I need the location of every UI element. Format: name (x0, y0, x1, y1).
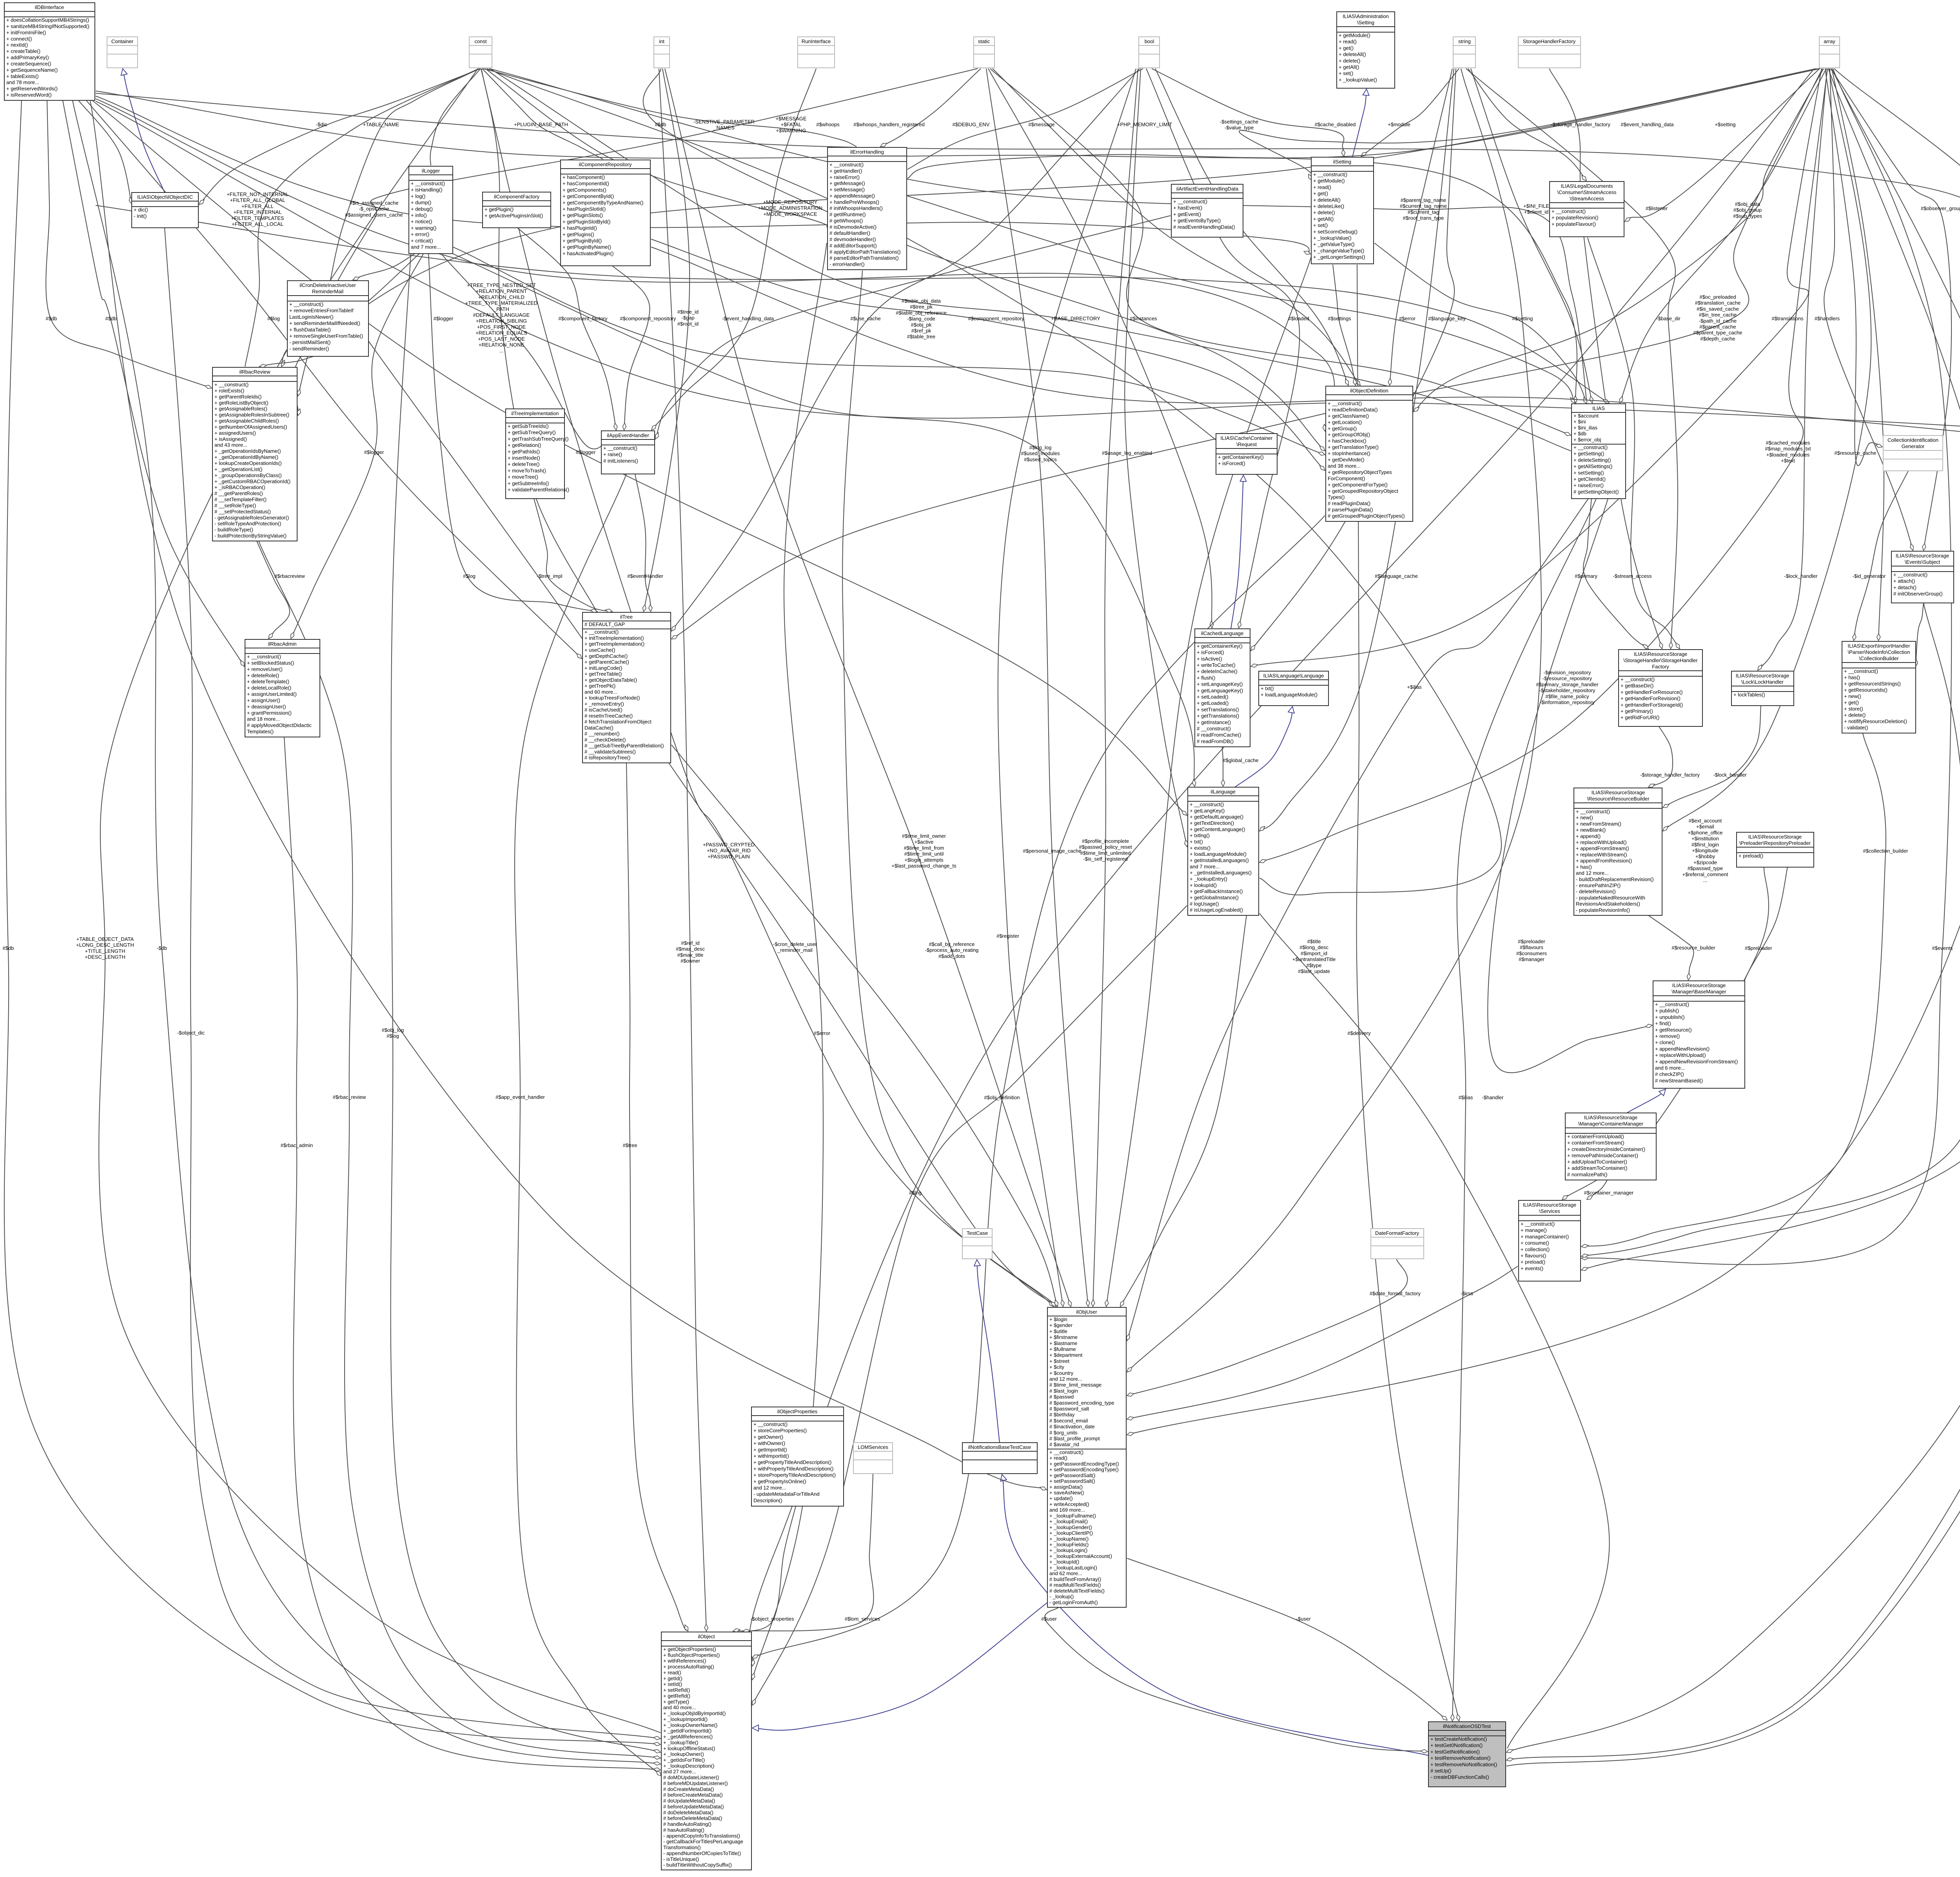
svg-text:#$instances: #$instances (1130, 316, 1157, 321)
svg-text:ForComponent(): ForComponent() (1328, 476, 1365, 481)
svg-text:+$module: +$module (1388, 122, 1410, 127)
svg-text:#$log: #$log (387, 1033, 399, 1039)
svg-text:ILIAS\ResourceStorage: ILIAS\ResourceStorage (1896, 553, 1949, 559)
class ilObjectDIC (132, 192, 198, 228)
svg-text:+ getResourceIds(): + getResourceIds() (1844, 687, 1887, 693)
svg-text:-$storage_handler_factory: -$storage_handler_factory (1551, 122, 1610, 127)
svg-text:# beforeUpdateMetaData(): # beforeUpdateMetaData() (663, 1804, 724, 1810)
svg-text:+ createDirectoryInsideContain: + createDirectoryInsideContainer() (1567, 1146, 1645, 1152)
node label +$ilias (1407, 684, 1422, 690)
svg-text:# isCacheUsed(): # isCacheUsed() (584, 707, 622, 713)
svg-text:+ __construct(): + __construct() (1893, 572, 1927, 578)
node label #$time_limit_owner (891, 833, 956, 869)
svg-text:#$time_limit_unlimited: #$time_limit_unlimited (1080, 850, 1131, 856)
class ilComponentRepository (561, 160, 650, 266)
wire bool-&gt;errh (907, 69, 1143, 169)
wire const-&gt;ilLogger (430, 69, 481, 165)
wire const-&gt;errh-message (483, 69, 857, 147)
svg-text:ILIAS\Administration: ILIAS\Administration (1343, 13, 1389, 19)
svg-text:ilLanguage: ilLanguage (1210, 789, 1236, 795)
svg-text:+ _getInstalledLanguages(): + _getInstalledLanguages() (1190, 870, 1252, 876)
svg-text:+ _isRBACOperation(): + _isRBACOperation() (214, 485, 265, 490)
svg-text:and 43 more...: and 43 more... (214, 442, 247, 448)
node label #$db (105, 316, 117, 321)
node label #$preloader (1745, 945, 1772, 951)
svg-text:+TABLE_NAME: +TABLE_NAME (363, 122, 399, 127)
svg-text:ilTreeImplementation: ilTreeImplementation (512, 410, 559, 416)
wire bool-&gt;ilObjUser-profile (1093, 69, 1138, 1307)
svg-text:+$loaded_modules: +$loaded_modules (1766, 452, 1810, 457)
svg-text:#$ilias: #$ilias (1459, 1095, 1473, 1100)
wire user-&gt;osd-right (1127, 1558, 1447, 1720)
svg-text:#$call_by_reference: #$call_by_reference (929, 941, 975, 947)
svg-text:+ getPasswordEncodingType(): + getPasswordEncodingType() (1049, 1461, 1119, 1467)
svg-text:#$cache_disabled: #$cache_disabled (1315, 122, 1356, 127)
svg-text:+ getReservedWords(): + getReservedWords() (6, 86, 58, 92)
svg-text:#$logger: #$logger (364, 449, 384, 455)
svg-text:ilComponentFactory: ilComponentFactory (494, 194, 540, 200)
class CollectionBuilder (1842, 641, 1916, 733)
svg-text:+ getTreeImplementation(): + getTreeImplementation() (584, 641, 644, 647)
svg-text:#$add_dots: #$add_dots (938, 953, 965, 959)
svg-text:-$revision_repository: -$revision_repository (1544, 670, 1591, 675)
svg-text:ILIAS\ResourceStorage: ILIAS\ResourceStorage (1523, 1202, 1577, 1208)
svg-text:Container: Container (111, 38, 134, 44)
node label #$obj_data (1733, 201, 1762, 219)
svg-text:+ appendNewRevision(): + appendNewRevision() (1655, 1046, 1710, 1052)
svg-text:+ getContainerKey(): + getContainerKey() (1218, 454, 1264, 460)
svg-text:\Lock\LockHandler: \Lock\LockHandler (1741, 679, 1784, 685)
svg-text:#$primary: #$primary (1575, 573, 1597, 579)
svg-text:# handleAutoRating(): # handleAutoRating() (663, 1821, 711, 1827)
svg-text:+ _lookupFields(): + _lookupFields() (1049, 1542, 1089, 1548)
svg-text:- populateNakedResourceWith: - populateNakedResourceWith (1576, 895, 1645, 900)
svg-text:- deleteRevision(): - deleteRevision() (1576, 889, 1616, 895)
node label +TABLE_OBJECT_DATA (76, 936, 134, 960)
svg-text:Generator: Generator (1902, 443, 1925, 449)
node label #$db (3, 945, 14, 951)
node label #$language_key (1428, 316, 1466, 321)
svg-text:#$personal_image_cache: #$personal_image_cache (1023, 848, 1082, 854)
wire bus-db-ILIAS2 (96, 205, 1609, 403)
class ilLogger (409, 166, 453, 254)
wire db-&gt;ilObjUser (90, 100, 1047, 1490)
svg-text:#$error: #$error (814, 1030, 831, 1036)
node label #$setting (1512, 316, 1533, 321)
node label #$rbac_review (333, 1094, 366, 1100)
svg-text:LOMServices: LOMServices (858, 1444, 889, 1450)
svg-text:# $avatar_rid: # $avatar_rid (1049, 1441, 1079, 1447)
svg-text:+ __construct(): + __construct() (584, 629, 619, 635)
svg-text:+ testGetNotification(): + testGetNotification() (1430, 1749, 1480, 1755)
wire array-&gt;cachedlang-translations (1251, 69, 1822, 666)
svg-text:#$component_repository: #$component_repository (968, 316, 1024, 321)
node label #$listener (1646, 205, 1668, 211)
svg-text:#$events: #$events (1932, 945, 1953, 951)
svg-text:#$event_handling_data: #$event_handling_data (1621, 122, 1674, 127)
svg-text:- buildRoleType(): - buildRoleType() (214, 527, 253, 533)
svg-text:#$type: #$type (1306, 962, 1321, 968)
wire ILIAS-&gt;RSSHF-primary (1583, 499, 1648, 649)
wire rbacreview-&gt;ilObject (259, 541, 661, 1758)
wire const-&gt;comprepo-pluginpath (482, 69, 603, 159)
node label #$parent_tag_name (1400, 197, 1447, 221)
svg-text:+ getObjectDataTable(): + getObjectDataTable() (584, 677, 637, 683)
svg-text:+ _lookupOwner(): + _lookupOwner() (663, 1751, 704, 1757)
class ContainerManager (1565, 1113, 1656, 1180)
svg-text:+$email: +$email (1696, 824, 1714, 830)
svg-text:# normalizePath(): # normalizePath() (1567, 1171, 1608, 1177)
svg-text:-$stakeholder_repository: -$stakeholder_repository (1539, 688, 1595, 693)
class ilTreeImplementation (506, 409, 569, 499)
node label #$obj_log (382, 1027, 404, 1039)
wire ILIAS-&gt;ilObjUser-ilias (1127, 499, 1588, 1341)
svg-text:+ getTranslations(): + getTranslations() (1197, 713, 1239, 719)
svg-text:+ _lookupEmail(): + _lookupEmail() (1049, 1519, 1088, 1525)
svg-text:+ has(): + has() (1844, 675, 1860, 681)
wire logger-&gt;ilObject-log (391, 254, 661, 1752)
svg-text:# __setProtectedStatus(): # __setProtectedStatus() (214, 508, 271, 514)
svg-text:#$owner: #$owner (681, 958, 701, 964)
class ilTree (583, 612, 671, 763)
node label #$user (1041, 1616, 1057, 1622)
svg-text:+$FATAL: +$FATAL (781, 122, 802, 127)
svg-text:+ getPlugins(): + getPlugins() (563, 231, 594, 237)
svg-text:- updateMetadataForTitleAnd: - updateMetadataForTitleAnd (753, 1491, 820, 1497)
wire string-&gt;cachedlang-langkey (1251, 69, 1456, 651)
svg-text:#$usage_log_enabled: #$usage_log_enabled (1102, 450, 1152, 456)
svg-text:+ __construct(): + __construct() (1173, 199, 1207, 205)
wire array-&gt;lockhandler (1758, 69, 1827, 670)
svg-text:+ getClientId(): + getClientId() (1573, 476, 1606, 482)
svg-text:+ __construct(): + __construct() (214, 382, 249, 388)
svg-text:+ setBlockedStatus(): + setBlockedStatus() (247, 660, 294, 666)
svg-text:+ getClassName(): + getClassName() (1328, 413, 1369, 419)
wire db-&gt;ilObject-413 (73, 100, 661, 1764)
svg-text:+ publish(): + publish() (1655, 1008, 1679, 1014)
node label #$settings (1328, 316, 1351, 321)
wire db-&gt;ilSetting-bus (96, 96, 1310, 254)
wire lom-&gt;ilObject (743, 1474, 874, 1631)
svg-text:+ deleteTemplate(): + deleteTemplate() (247, 679, 289, 684)
svg-text:# devmodeHandler(): # devmodeHandler() (829, 236, 876, 242)
class RunInterface (798, 37, 835, 68)
svg-text:+ getGroupedRepositoryObject: + getGroupedRepositoryObject (1328, 488, 1398, 494)
svg-text:ilRbacAdmin: ilRbacAdmin (268, 641, 297, 647)
svg-text:+ _getIdForImportId(): + _getIdForImportId() (663, 1728, 711, 1734)
svg-text:- buildDraftReplacementRevisio: - buildDraftReplacementRevision() (1576, 876, 1654, 882)
node label +TABLE_NAME (363, 122, 399, 127)
svg-text:+ set(): + set() (1313, 222, 1328, 228)
svg-text:ilComponentRepository: ilComponentRepository (579, 162, 632, 167)
wire int-&gt;ilObject (659, 69, 706, 1631)
svg-text:+ manageContainer(): + manageContainer() (1521, 1234, 1569, 1240)
svg-text:#$is_saved_cache: #$is_saved_cache (1697, 306, 1739, 312)
svg-text:+ __construct(): + __construct() (753, 1421, 788, 1427)
svg-text:#$db: #$db (655, 122, 666, 127)
wire db-&gt;ilTree (86, 100, 582, 659)
class LockHandler (1731, 671, 1794, 706)
svg-text:+ __construct(): + __construct() (1621, 677, 1655, 683)
node label -$stream_access (1613, 573, 1652, 579)
svg-text:#$loaded: #$loaded (1288, 316, 1309, 321)
svg-text:+ lookupOfflineStatus(): + lookupOfflineStatus() (663, 1745, 715, 1751)
node label #$message (1028, 122, 1054, 127)
svg-text:# $last_login: # $last_login (1049, 1388, 1078, 1394)
svg-text:+ moveTree(): + moveTree() (508, 474, 538, 480)
node label #$error (814, 1030, 831, 1036)
svg-text:+ getTreeTable(): + getTreeTable() (584, 671, 622, 677)
svg-text:#$db: #$db (3, 945, 14, 951)
wire bool-&gt;ilTree-usecache (671, 69, 1140, 631)
svg-text:\Resource\ResourceBuilder: \Resource\ResourceBuilder (1587, 796, 1650, 802)
svg-text:+ getGroupOfObj(): + getGroupOfObj() (1328, 432, 1370, 437)
svg-text:- getLoginFromAuth(): - getLoginFromAuth() (1049, 1599, 1098, 1605)
svg-text:+ _lookupObjIdByImportId(): + _lookupObjIdByImportId() (663, 1710, 726, 1716)
svg-text:#$table_obj_reference: #$table_obj_reference (896, 310, 946, 316)
svg-text:# getIlRuntime(): # getIlRuntime() (829, 212, 866, 218)
wire objprops-&gt;ilObject (733, 1506, 796, 1631)
svg-text:and 78 more...: and 78 more... (6, 80, 39, 85)
svg-text:+ __construct(): + __construct() (247, 654, 281, 660)
svg-text:+ isActive(): + isActive() (1197, 656, 1222, 662)
svg-text:+ _lookupName(): + _lookupName() (1049, 1536, 1089, 1542)
svg-text:+ getComponents(): + getComponents() (563, 187, 606, 193)
svg-text:#$container_manager: #$container_manager (1584, 1190, 1634, 1196)
class int (654, 37, 670, 68)
svg-text:+ getRelation(): + getRelation() (508, 442, 541, 448)
svg-text:+ getNumberOfAssignedUsers(): + getNumberOfAssignedUsers() (214, 424, 287, 430)
node label -$base_dir (1656, 316, 1681, 321)
svg-text:+ removeUser(): + removeUser() (247, 666, 283, 672)
svg-text:+ _getOperationIdByName(): + _getOperationIdByName() (214, 454, 278, 460)
node label #$personal_image_cache (1023, 848, 1082, 854)
svg-text:# $passwd: # $passwd (1049, 1394, 1074, 1400)
svg-text:# __renumber(): # __renumber() (584, 731, 620, 737)
svg-text:+ __construct(): + __construct() (1844, 668, 1878, 674)
wire ILIAS-&gt;basemanager-handler (1488, 499, 1652, 1073)
svg-text:+ deleteSetting(): + deleteSetting() (1573, 457, 1611, 463)
svg-text:+ isReservedWord(): + isReservedWord() (6, 92, 52, 98)
svg-text:+ $lastname: + $lastname (1049, 1340, 1077, 1346)
wire dff-&gt;ilObjUser (1127, 1259, 1408, 1396)
svg-text:+ _lookupImportId(): + _lookupImportId() (663, 1716, 708, 1722)
svg-text:+ _lookupGender(): + _lookupGender() (1049, 1524, 1092, 1530)
svg-text:+ __construct(): + __construct() (289, 301, 323, 307)
svg-text:+ getPluginSlots(): + getPluginSlots() (563, 212, 603, 218)
wire inherit ContainerManager-&gt;BaseManager (1627, 1089, 1666, 1113)
svg-text:-$id_generator: -$id_generator (1853, 573, 1886, 579)
svg-text:# beforeMDUpdateListener(): # beforeMDUpdateListener() (663, 1781, 728, 1786)
node label #$instances (1130, 316, 1157, 321)
svg-text:\Consumer\StreamAccess: \Consumer\StreamAccess (1557, 189, 1617, 195)
wire array-&gt;rbacreview (293, 69, 1819, 416)
svg-text:ilLogger: ilLogger (422, 168, 440, 174)
wire array-&gt;ilSetting-settingscache (1239, 69, 1817, 180)
svg-text:+ setSetting(): + setSetting() (1573, 470, 1604, 476)
node label #$cached_modules (1765, 440, 1811, 464)
wire treeimpl-&gt;tree (534, 499, 612, 612)
node label #$collection_builder (1863, 848, 1909, 854)
svg-text:+POS_FIRST_NODE: +POS_FIRST_NODE (477, 324, 526, 330)
svg-text:+MODE_ADMINISTRATION: +MODE_ADMINISTRATION (758, 205, 822, 211)
svg-text:+ appendNewRevisionFromStream(: + appendNewRevisionFromStream() (1655, 1058, 1738, 1064)
node label #$component_repository (968, 316, 1024, 321)
svg-text:#$setting: #$setting (1512, 316, 1533, 321)
svg-text:+ getHandlerForStorageId(): + getHandlerForStorageId() (1621, 702, 1683, 708)
wire inherit BaseTestCase-&gt;TestCase (977, 1260, 1000, 1443)
svg-text:+ attach(): + attach() (1893, 578, 1915, 584)
wire static-&gt;rbacreview-cache (298, 69, 978, 396)
svg-text:# initObserverGroup(): # initObserverGroup() (1893, 591, 1943, 597)
svg-text:ilAppEventHandler: ilAppEventHandler (607, 432, 649, 438)
svg-text:+ lookupTreesForNode(): + lookupTreesForNode() (584, 695, 640, 701)
svg-text:#$translation_cache: #$translation_cache (1695, 300, 1740, 306)
svg-text:static: static (978, 38, 990, 44)
svg-text:+ flavours(): + flavours() (1521, 1253, 1546, 1259)
svg-text:+ newFromStream(): + newFromStream() (1576, 821, 1621, 827)
svg-text:...: ... (1703, 877, 1708, 883)
svg-text:+$last_password_change_ts: +$last_password_change_ts (891, 863, 956, 869)
svg-text:# resetInTreeCache(): # resetInTreeCache() (584, 713, 633, 719)
svg-text:Types(): Types() (1328, 494, 1345, 500)
wire cron-&gt;ilObjUser (368, 341, 1056, 1307)
svg-text:# $inactivation_date: # $inactivation_date (1049, 1424, 1095, 1430)
wire logger-&gt;cron (353, 254, 415, 280)
node label -$lock_handler (1713, 772, 1747, 778)
svg-text:+ deassignUser(): + deassignUser() (247, 704, 286, 710)
svg-text:+ unpublish(): + unpublish() (1655, 1014, 1685, 1020)
wire bool-&gt;ilSetting-cache_disabled (1152, 69, 1344, 156)
wire const-&gt;rbacreview-filters (245, 69, 479, 367)
svg-text:+$login_attempts: +$login_attempts (904, 857, 944, 863)
svg-text:#$tree_pk: #$tree_pk (910, 304, 933, 310)
svg-text:+ info(): + info() (411, 212, 427, 218)
class ilCachedLanguage (1195, 629, 1250, 747)
svg-text:+ __construct(): + __construct() (1521, 1221, 1555, 1227)
svg-text:+ __construct(): + __construct() (1190, 802, 1224, 808)
wire const-&gt;ilObject-consts (99, 69, 661, 1733)
svg-text:_PATH: _PATH (493, 306, 509, 312)
svg-text:+ hasComponentId(): + hasComponentId() (563, 181, 609, 187)
svg-text:#$date_format_factory: #$date_format_factory (1370, 1291, 1421, 1296)
svg-text:ILIAS\Export\ImportHandler: ILIAS\Export\ImportHandler (1848, 643, 1911, 649)
svg-text:string: string (1458, 38, 1471, 44)
svg-text:+ $ini: + $ini (1573, 419, 1586, 425)
svg-text:#$manager: #$manager (1519, 957, 1544, 962)
svg-text:+ __construct(): + __construct() (1328, 401, 1362, 407)
svg-text:+RELATION_CHILD: +RELATION_CHILD (478, 294, 524, 300)
svg-text:#$error: #$error (1399, 316, 1416, 321)
svg-text:# __checkDelete(): # __checkDelete() (584, 737, 626, 742)
svg-text:ILIAS\ResourceStorage: ILIAS\ResourceStorage (1672, 982, 1726, 988)
svg-text:+ getModule(): + getModule() (1339, 33, 1370, 38)
svg-text:+ setTranslations(): + setTranslations() (1197, 706, 1239, 712)
class ilAppEventHandler (601, 431, 655, 474)
svg-text:#$component_factory: #$component_factory (558, 316, 608, 321)
svg-text:+$longitude: +$longitude (1692, 848, 1719, 853)
svg-text:+RELATION_SIBLING: +RELATION_SIBLING (476, 318, 527, 324)
svg-text:- populateRevisionInfo(): - populateRevisionInfo() (1576, 907, 1630, 913)
svg-text:#$whoops: #$whoops (816, 122, 840, 127)
svg-text:ILIAS\ResourceStorage: ILIAS\ResourceStorage (1736, 673, 1789, 679)
svg-text:+ $department: + $department (1049, 1352, 1083, 1358)
svg-text:+ deleteAll(): + deleteAll() (1313, 197, 1341, 203)
node label -$object_properties (750, 1616, 794, 1622)
svg-text:# $password_encoding_type: # $password_encoding_type (1049, 1400, 1114, 1406)
svg-text:ilObjUser: ilObjUser (1076, 1309, 1097, 1315)
wire array-&gt;ilObjUser-prefs (1127, 69, 1960, 1435)
wire comprepo-&gt;objdef (651, 239, 1325, 470)
svg-text:+$MESSAGE: +$MESSAGE (775, 116, 806, 122)
svg-text:# parseEditorPathTranslation(): # parseEditorPathTranslation() (829, 255, 899, 261)
svg-text:- createDBFunctionCalls(): - createDBFunctionCalls() (1430, 1774, 1489, 1780)
node label #$eventHandler (627, 573, 663, 579)
class ilObject (661, 1632, 751, 1870)
svg-text:+ setId(): + setId() (663, 1681, 682, 1687)
svg-text:+ _lookupClientIP(): + _lookupClientIP() (1049, 1530, 1093, 1536)
svg-text:+ getBaseDir(): + getBaseDir() (1621, 683, 1653, 689)
wire array-&gt;ilTree-caches (671, 69, 1822, 639)
wire const-&gt;ilTree-consts (481, 69, 597, 612)
svg-text:+ getRidForURI(): + getRidForURI() (1621, 715, 1659, 721)
wire db-&gt;objdef-bus (96, 99, 1334, 431)
node label -$lock_handler (1784, 573, 1818, 579)
svg-text:+ get(): + get() (1844, 700, 1859, 706)
svg-text:+$institution: +$institution (1691, 836, 1719, 842)
svg-text:+ replaceWithUpload(): + replaceWithUpload() (1576, 839, 1627, 845)
svg-text:+ getAssignableChildRoles(): + getAssignableChildRoles() (214, 418, 279, 424)
wire int-&gt;ilTree (644, 69, 690, 612)
svg-text:#$resource_builder: #$resource_builder (1671, 945, 1715, 951)
class StorageHandlerFactory0 (1518, 37, 1581, 68)
svg-text:#$DEBUG_ENV: #$DEBUG_ENV (953, 122, 990, 127)
class ilRbacReview (212, 367, 297, 541)
wire objdef-&gt;ilObject (752, 516, 1325, 1658)
wire bus-comprepo-repository (651, 247, 1960, 449)
svg-text:+ newBlank(): + newBlank() (1576, 827, 1606, 833)
wire array-&gt;Subject-observer (1831, 69, 1951, 550)
class bool (1139, 37, 1160, 68)
svg-text:+ setMessage(): + setMessage() (829, 187, 865, 192)
node label +PHP_MEMORY_LIMIT (1117, 122, 1172, 127)
wire string-&gt;ilSetting-module (1361, 69, 1459, 156)
svg-text:ilTree: ilTree (620, 614, 633, 620)
svg-text:ILIAS: ILIAS (1592, 405, 1605, 411)
svg-text:+ getAllSettings(): + getAllSettings() (1573, 463, 1612, 469)
svg-text:Transformation(): Transformation() (663, 1844, 701, 1850)
wire array-&gt;collectionrepo-services (1581, 69, 1960, 1270)
svg-text:#$assigned_users_cache: #$assigned_users_cache (345, 212, 403, 218)
svg-text:+ update(): + update() (1049, 1496, 1073, 1501)
class Preloader (1737, 832, 1814, 867)
node label #$ilias (1459, 1095, 1473, 1100)
class Subject (1891, 551, 1954, 603)
wire bool-&gt;ilObjUser-register (998, 69, 1136, 1307)
svg-text:+ containerFromUpload(): + containerFromUpload() (1567, 1134, 1624, 1140)
wire array-&gt;osd-objectlist (1506, 69, 1960, 1752)
svg-text:+ getOwner(): + getOwner() (753, 1434, 783, 1440)
svg-text:# isDevmodeActive(): # isDevmodeActive() (829, 224, 877, 230)
svg-text:+ read(): + read() (1049, 1455, 1067, 1461)
svg-text:#$max_desc: #$max_desc (676, 946, 705, 952)
class Container (107, 37, 138, 68)
svg-text:+ getSubTreeQuery(): + getSubTreeQuery() (508, 430, 556, 436)
node label #$logger (434, 316, 454, 321)
node label -$object_dic (177, 1030, 205, 1036)
svg-text:+ append(): + append() (1576, 833, 1601, 839)
svg-text:+ delete(): + delete() (1844, 712, 1866, 718)
